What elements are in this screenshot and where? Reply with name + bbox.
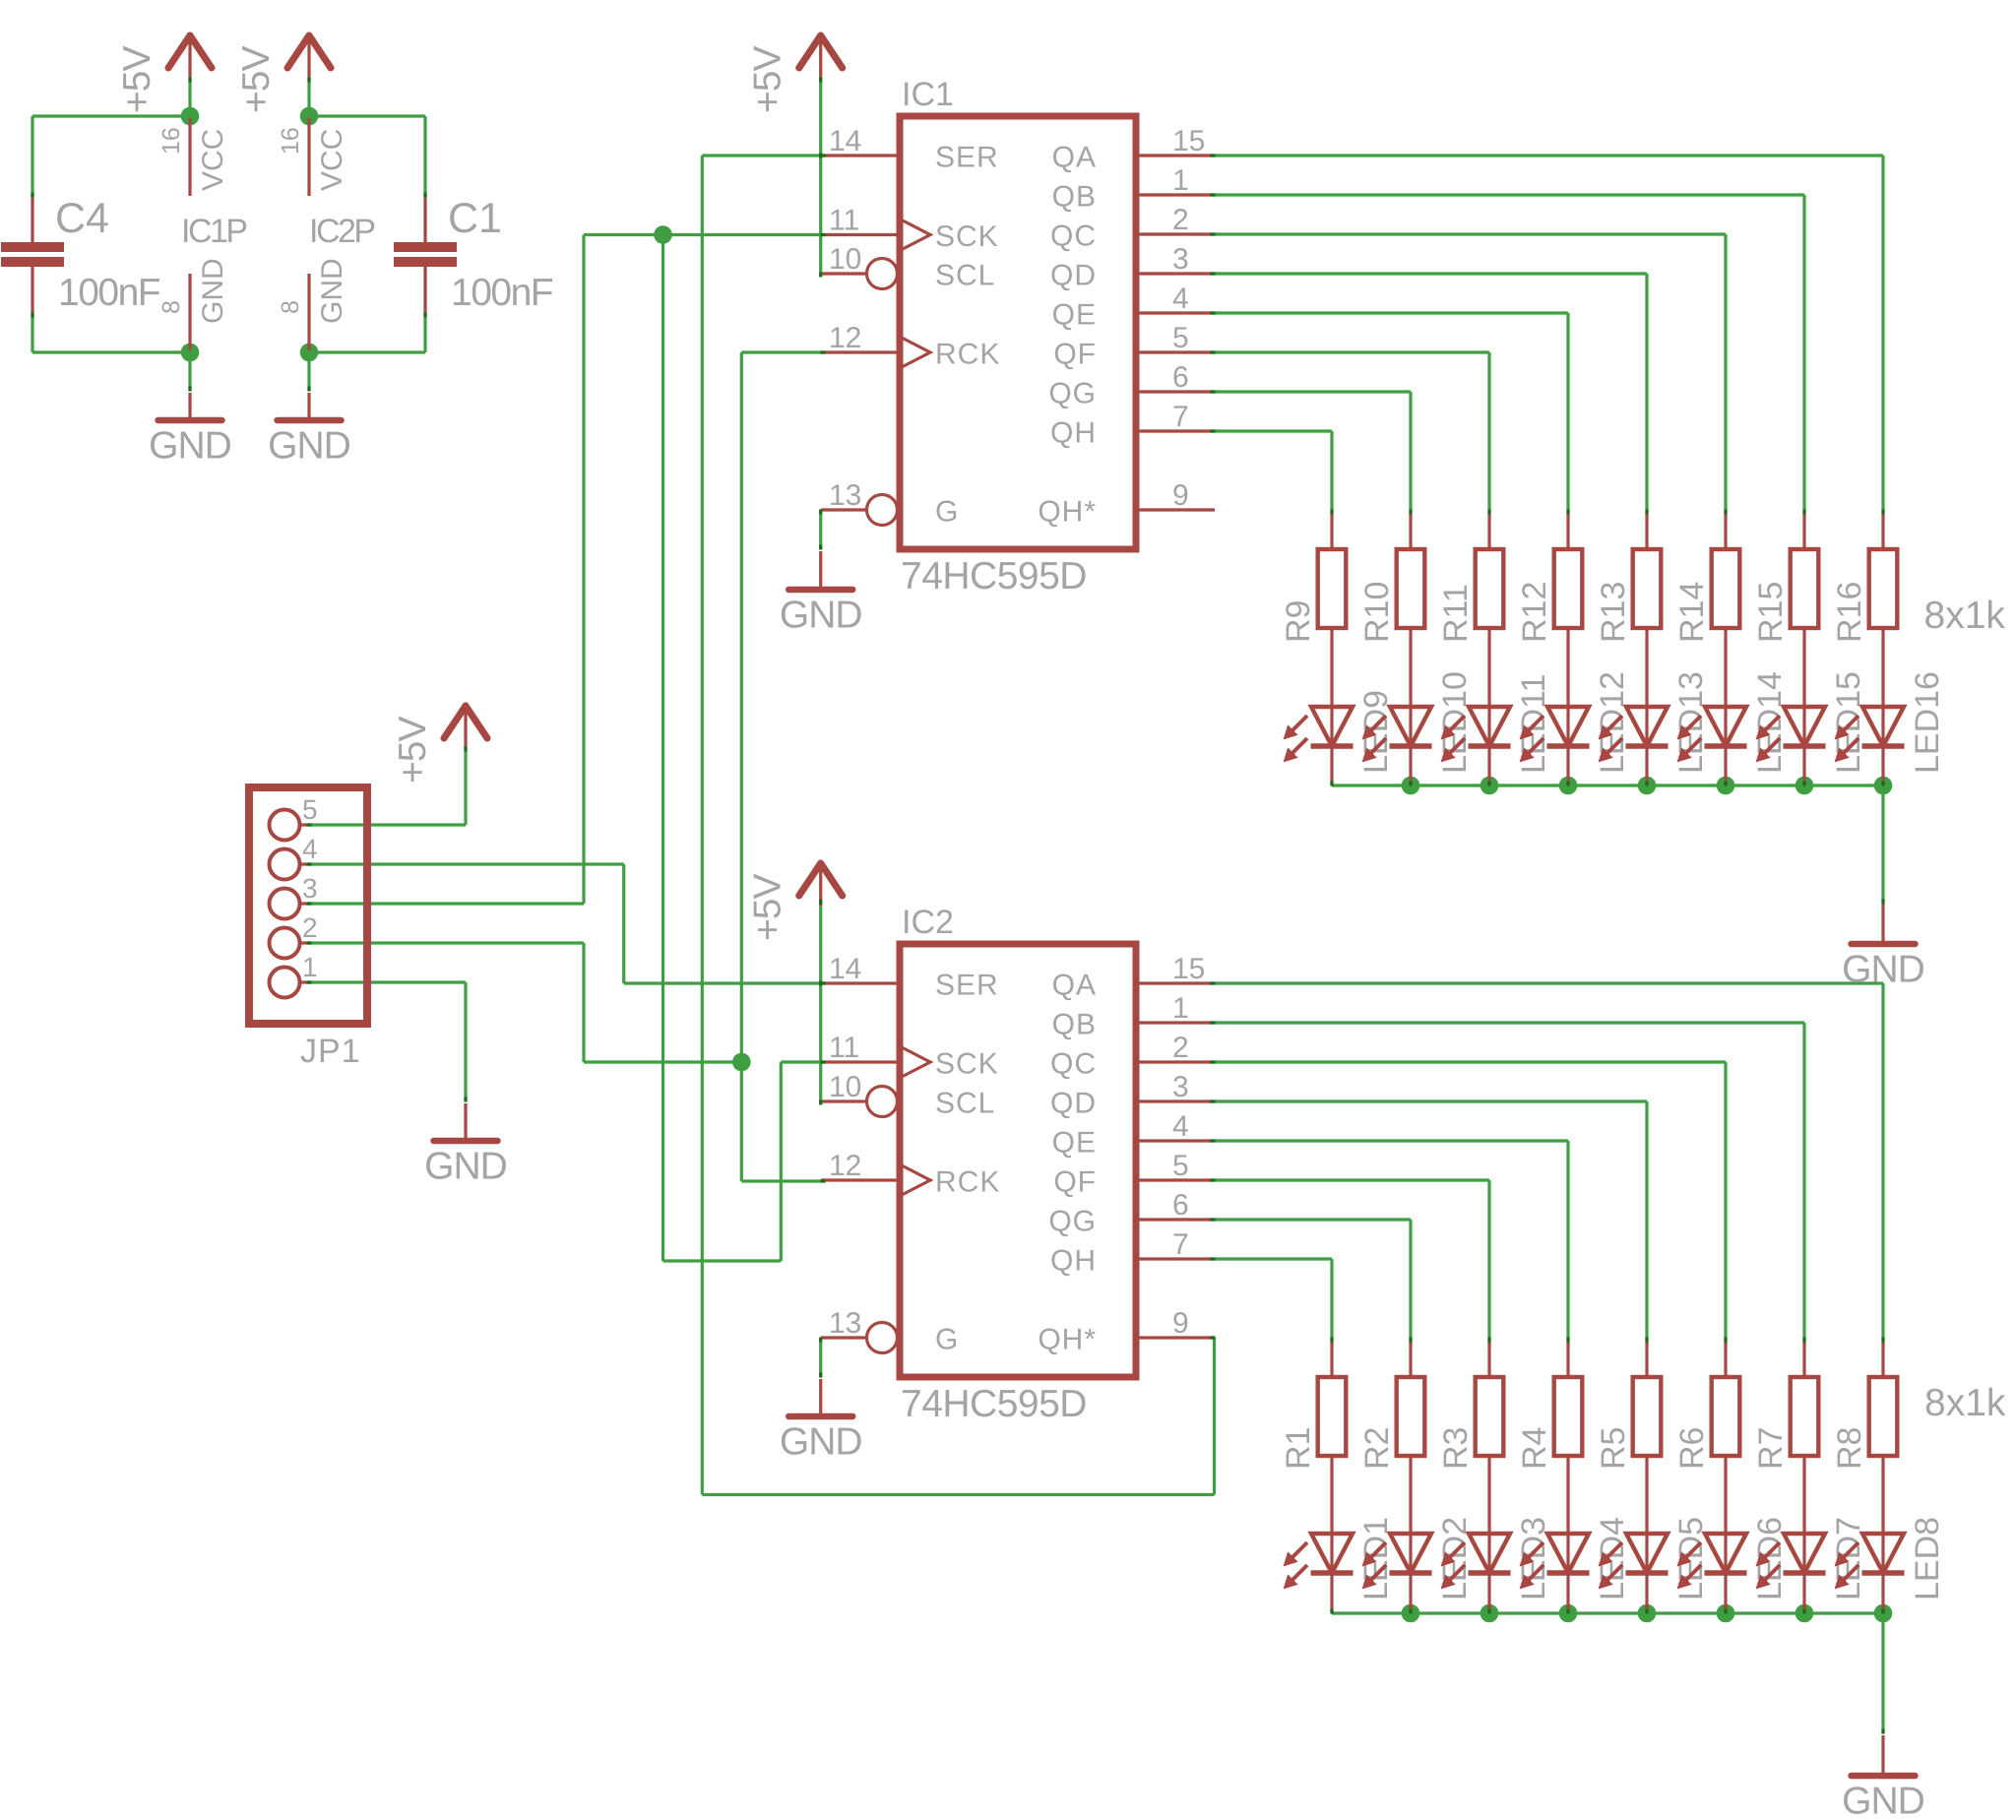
svg-text:QH*: QH*: [1038, 496, 1097, 529]
ground symbol top LED bus: [1881, 904, 1884, 944]
svg-text:5: 5: [1172, 1150, 1189, 1182]
svg-text:LED10: LED10: [1436, 671, 1474, 774]
svg-text:QC: QC: [1050, 220, 1097, 253]
wire net IC2.QD riser to R5: [1645, 1101, 1648, 1338]
svg-text:9: 9: [1172, 479, 1189, 512]
svg-text:+5V: +5V: [747, 46, 789, 113]
svg-text:GND: GND: [1842, 949, 1924, 991]
node GND junction at IC1P pin 8: [181, 344, 200, 362]
svg-text:R3: R3: [1437, 1427, 1475, 1470]
wire net IC1.QC riser to R14: [1724, 234, 1727, 510]
svg-text:QD: QD: [1050, 260, 1097, 292]
svg-text:2: 2: [302, 912, 318, 943]
capacitor C1 100nF: [423, 196, 426, 243]
svg-text:4: 4: [1172, 282, 1189, 315]
svg-text:8x1k: 8x1k: [1924, 595, 2006, 637]
svg-text:14: 14: [829, 125, 861, 157]
wire +5V: IC2P VCC to C1 top: [309, 114, 425, 117]
svg-text:QB: QB: [1052, 1009, 1097, 1041]
IC2 pin 9 QH*: [1136, 1336, 1215, 1339]
wire net IC1.QD to R13 row: [1215, 272, 1647, 275]
wire GND: bottom bus drop to GND: [1881, 1613, 1884, 1733]
svg-text:12: 12: [829, 322, 861, 354]
wire SCK: bottom jog row: [663, 1259, 782, 1262]
svg-text:RCK: RCK: [935, 1166, 1000, 1199]
wire net IC2.QB to R7 row: [1215, 1021, 1804, 1024]
wire SER2: IC2 SER row: [624, 981, 821, 984]
IC2 pin 1 QB: [1136, 1021, 1215, 1024]
wire SCK: IC1 SCK row: [584, 233, 821, 236]
+5V supply symbol above IC2: [799, 863, 821, 896]
svg-text:R6: R6: [1673, 1427, 1711, 1470]
svg-text:SCK: SCK: [935, 1048, 999, 1081]
LED LED3: [1469, 1534, 1510, 1573]
wire GND: IC2P GND pin to C1: [309, 350, 425, 353]
svg-text:VCC: VCC: [316, 129, 348, 191]
wire net IC1.QE riser to R12: [1566, 313, 1569, 510]
resistor R3 1k: [1487, 1338, 1490, 1377]
wire net IC1.QB riser to R15: [1802, 195, 1805, 510]
svg-text:1: 1: [302, 952, 318, 982]
IC2 pin 14 SER: [821, 981, 900, 984]
+5V supply symbol P1: [168, 35, 190, 68]
svg-text:GND: GND: [268, 425, 350, 468]
svg-text:C1: C1: [448, 195, 502, 242]
ground symbol at IC2 G pin: [819, 1379, 822, 1416]
IC1 pin 3 QD: [1136, 272, 1215, 275]
svg-text:GND: GND: [316, 258, 348, 324]
svg-text:R8: R8: [1831, 1427, 1868, 1470]
IC1 pin 5 QF: [1136, 350, 1215, 353]
wire net IC2.QB riser to R7: [1802, 1023, 1805, 1338]
svg-text:12: 12: [829, 1150, 861, 1182]
svg-text:QA: QA: [1052, 142, 1097, 174]
node bottom LED bus junction: [1480, 1604, 1499, 1623]
LED LED9: [1311, 707, 1353, 746]
svg-text:R15: R15: [1752, 582, 1790, 643]
IC2 pin 3 QD: [1136, 1099, 1215, 1102]
JP1 pin 5: [270, 810, 300, 841]
wire RCK: JP1.2 riser: [582, 943, 585, 1062]
wire SCK: trunk x=673 down: [661, 235, 664, 1262]
svg-text:+5V: +5V: [116, 46, 158, 113]
svg-text:10: 10: [829, 1071, 861, 1103]
resistor R10 1k: [1409, 510, 1412, 549]
LED LED13: [1626, 707, 1668, 746]
svg-text:QH: QH: [1050, 1245, 1097, 1278]
svg-text:6: 6: [1172, 361, 1189, 394]
resistor R16 1k: [1881, 510, 1884, 549]
svg-text:QD: QD: [1050, 1088, 1097, 1120]
+5V supply symbol P2: [287, 35, 309, 68]
node bottom LED bus junction: [1874, 1604, 1893, 1623]
wire net IC1.QG to R10 row: [1215, 390, 1411, 393]
svg-text:+5V: +5V: [235, 46, 278, 113]
svg-text:GND: GND: [149, 425, 231, 468]
wire net IC2.QE to R4 row: [1215, 1139, 1568, 1142]
ground symbol at IC1 G pin: [819, 551, 822, 590]
ground symbol below IC1P: [188, 393, 191, 420]
node GND junction at IC2P pin 8: [300, 344, 319, 362]
IC1 pin 13 G: [821, 508, 867, 511]
svg-text:R12: R12: [1516, 582, 1553, 643]
wire net IC2.QC riser to R6: [1724, 1062, 1727, 1338]
wire GND: C4 to IC1P GND pin: [32, 350, 190, 353]
node top LED bus junction: [1638, 777, 1657, 795]
wire GND: IC2P GND node to symbol: [307, 352, 310, 391]
node top LED bus junction: [1874, 777, 1893, 795]
capacitor C4 100nF: [31, 196, 33, 243]
svg-text:8x1k: 8x1k: [1924, 1382, 2006, 1424]
svg-text:IC1P: IC1P: [181, 213, 246, 250]
wire net IC2.QC to R6 row: [1215, 1060, 1726, 1063]
svg-text:R11: R11: [1437, 584, 1475, 643]
IC1 pin 7 QH: [1136, 429, 1215, 432]
node top LED bus junction: [1480, 777, 1499, 795]
resistor R15 1k: [1802, 510, 1805, 549]
svg-text:R9: R9: [1280, 600, 1317, 643]
ground symbol below IC2P: [307, 393, 310, 420]
wire GND: JP1.1 row: [307, 980, 466, 983]
wire net IC1.QF riser to R11: [1487, 352, 1490, 510]
wire +5V: JP1.5 row: [307, 823, 466, 826]
svg-text:4: 4: [302, 834, 318, 864]
svg-text:QG: QG: [1048, 378, 1097, 410]
wire net IC2.QA to R8 row: [1215, 981, 1883, 984]
wire +5V: riser to IC1 SCL pin 10: [819, 78, 822, 274]
svg-text:IC2P: IC2P: [309, 213, 374, 250]
svg-text:13: 13: [829, 479, 861, 512]
wire net IC1.QH to R9 row: [1215, 429, 1332, 432]
wire +5V: riser to IC2 SCL pin 10: [819, 900, 822, 1102]
wire +5V: JP1.5 riser to arrow: [464, 747, 467, 825]
svg-text:R4: R4: [1516, 1427, 1553, 1470]
svg-text:3: 3: [302, 873, 318, 904]
svg-text:GND: GND: [780, 595, 862, 637]
IC2 pin 15 QA: [1136, 981, 1215, 984]
wire RCK: IC2 RCK row: [741, 1179, 821, 1182]
IC1 pin 9 QH*: [1136, 508, 1215, 511]
svg-text:R10: R10: [1358, 582, 1396, 643]
svg-text:R7: R7: [1752, 1427, 1790, 1470]
svg-text:GND: GND: [424, 1146, 507, 1188]
svg-text:11: 11: [829, 1032, 859, 1064]
resistor R2 1k: [1409, 1338, 1412, 1377]
wire net IC2.QA riser to R8: [1881, 983, 1884, 1338]
wire +5V: arrow P2 drop: [307, 78, 310, 116]
wire SER1: daisy-chain bottom row: [702, 1493, 1214, 1496]
svg-text:QF: QF: [1053, 339, 1097, 371]
IC2 pin 5 QF: [1136, 1178, 1215, 1181]
wire GND: JP1.1 drop: [464, 982, 467, 1101]
LED LED16: [1862, 707, 1904, 746]
power pins IC1P: [188, 118, 191, 196]
wire +5V: C1 right riser: [423, 116, 426, 197]
wire net IC1.QH riser to R9: [1330, 431, 1333, 510]
svg-text:C4: C4: [55, 195, 109, 242]
node bottom LED bus junction: [1795, 1604, 1814, 1623]
IC1 pin 4 QE: [1136, 311, 1215, 314]
IC1 pin 6 QG: [1136, 390, 1215, 393]
resistor R14 1k: [1724, 510, 1727, 549]
svg-text:15: 15: [1172, 953, 1205, 985]
svg-text:3: 3: [1172, 243, 1189, 276]
resistor R6 1k: [1724, 1338, 1727, 1377]
resistor R12 1k: [1566, 510, 1569, 549]
IC2 pin 2 QC: [1136, 1060, 1215, 1063]
svg-text:LED13: LED13: [1672, 671, 1710, 774]
svg-text:IC2: IC2: [902, 904, 954, 941]
svg-text:4: 4: [1172, 1110, 1189, 1143]
svg-text:74HC595D: 74HC595D: [901, 1383, 1087, 1425]
svg-text:QH*: QH*: [1038, 1324, 1097, 1356]
wire GND: top bus drop to GND: [1881, 785, 1884, 902]
wire SER2: JP1.4 row: [307, 862, 624, 865]
IC2 pin 6 QG: [1136, 1218, 1215, 1221]
wire net IC1.QE to R12 row: [1215, 311, 1568, 314]
wire net IC1.QF to R11 row: [1215, 350, 1489, 353]
svg-text:QB: QB: [1052, 181, 1097, 214]
svg-text:GND: GND: [780, 1421, 862, 1464]
svg-text:JP1: JP1: [300, 1033, 361, 1070]
wire SER1: riser to IC2 QH* pin 9: [1213, 1338, 1216, 1495]
JP1 pin 1: [270, 968, 300, 998]
IC1 pin 2 QC: [1136, 232, 1215, 235]
wire net IC2.QE riser to R4: [1566, 1141, 1569, 1338]
svg-text:GND: GND: [1842, 1781, 1924, 1820]
wire net IC2.QF riser to R3: [1487, 1180, 1490, 1338]
svg-text:2: 2: [1172, 1032, 1189, 1064]
svg-text:R5: R5: [1595, 1427, 1632, 1470]
wire GND: C4 bottom riser: [31, 313, 33, 352]
wire GND: bottom LED bus: [1332, 1611, 1883, 1614]
svg-text:14: 14: [829, 953, 861, 985]
svg-text:8: 8: [277, 300, 304, 314]
LED LED8: [1862, 1534, 1904, 1573]
svg-text:1: 1: [1172, 164, 1189, 197]
svg-text:+5V: +5V: [747, 874, 789, 941]
svg-text:LED16: LED16: [1909, 671, 1946, 774]
wire GND: IC1P GND node to symbol: [188, 352, 191, 391]
node top LED bus junction: [1559, 777, 1578, 795]
svg-text:5: 5: [302, 794, 318, 825]
wire GND: IC1 G pin drop: [819, 510, 822, 549]
IC2 pin 7 QH: [1136, 1257, 1215, 1260]
connector JP1 box: [249, 787, 367, 1024]
svg-text:LED15: LED15: [1830, 671, 1867, 774]
svg-text:SER: SER: [935, 142, 999, 174]
LED LED6: [1705, 1534, 1746, 1573]
LED LED15: [1784, 707, 1825, 746]
LED LED10: [1390, 707, 1431, 746]
node bottom LED bus junction: [1638, 1604, 1657, 1623]
IC2 pin 12 RCK: [821, 1178, 900, 1181]
wire net IC1.QG riser to R10: [1409, 392, 1412, 510]
svg-text:LED14: LED14: [1751, 671, 1789, 774]
wire RCK: trunk x=753: [740, 352, 743, 1181]
node top LED bus junction: [1402, 777, 1420, 795]
svg-text:100nF: 100nF: [451, 272, 553, 314]
wire GND: top LED bus: [1332, 784, 1883, 786]
wire RCK: jog row to trunk: [584, 1060, 741, 1063]
LED LED4: [1547, 1534, 1589, 1573]
wire net IC1.QC to R14 row: [1215, 232, 1726, 235]
wire SER1: IC1 SER row: [702, 154, 821, 157]
IC2 pin 4 QE: [1136, 1139, 1215, 1142]
wire SER2: riser x=633: [622, 864, 625, 983]
svg-text:11: 11: [829, 205, 859, 237]
IC1 pin 14 SER: [821, 154, 900, 157]
LED LED12: [1547, 707, 1589, 746]
svg-text:SCL: SCL: [935, 260, 995, 292]
LED LED14: [1705, 707, 1746, 746]
svg-text:6: 6: [1172, 1189, 1189, 1222]
wire +5V: C4 top to IC1P VCC: [32, 114, 190, 117]
+5V supply symbol at JP1: [444, 706, 466, 738]
node bottom LED bus junction: [1717, 1604, 1735, 1623]
power pins IC2P: [307, 118, 310, 196]
+5V supply symbol above IC1: [799, 35, 821, 68]
resistor R7 1k: [1802, 1338, 1805, 1377]
wire RCK: JP1.2 row: [307, 941, 584, 944]
wire +5V: arrow P1 drop to VCC node: [188, 78, 191, 116]
svg-text:15: 15: [1172, 125, 1205, 157]
svg-text:QH: QH: [1050, 417, 1097, 450]
svg-text:2: 2: [1172, 204, 1189, 236]
svg-text:SER: SER: [935, 970, 999, 1002]
svg-text:R1: R1: [1280, 1427, 1317, 1470]
svg-text:RCK: RCK: [935, 339, 1000, 371]
wire net IC1.QB to R15 row: [1215, 193, 1804, 196]
wire net IC2.QH to R1 row: [1215, 1257, 1332, 1260]
svg-text:G: G: [935, 1324, 959, 1356]
wire net IC1.QA riser to R16: [1881, 156, 1884, 510]
svg-text:VCC: VCC: [197, 129, 229, 191]
wire SCK: JP1.3 riser: [582, 235, 585, 905]
LED LED1: [1311, 1534, 1353, 1573]
wire +5V: C4 left riser: [31, 116, 33, 197]
resistor R11 1k: [1487, 510, 1490, 549]
wire RCK: IC1 RCK row: [741, 350, 821, 353]
ground symbol bottom LED bus: [1881, 1735, 1884, 1776]
svg-text:8: 8: [157, 300, 185, 314]
resistor R5 1k: [1645, 1338, 1648, 1377]
node bottom LED bus junction: [1559, 1604, 1578, 1623]
svg-text:13: 13: [829, 1307, 861, 1340]
svg-text:1: 1: [1172, 992, 1189, 1025]
node top LED bus junction: [1795, 777, 1814, 795]
svg-text:SCK: SCK: [935, 220, 999, 253]
resistor R4 1k: [1566, 1338, 1569, 1377]
IC U2: 74HC595D shift register IC2 box: [900, 944, 1136, 1377]
svg-text:5: 5: [1172, 322, 1189, 354]
node +5V junction at IC2P VCC: [300, 107, 319, 126]
svg-text:SCL: SCL: [935, 1088, 995, 1120]
svg-text:QE: QE: [1052, 299, 1097, 332]
IC1 pin 11 SCK: [821, 233, 900, 236]
wire net IC2.QD to R5 row: [1215, 1099, 1647, 1102]
node RCK junction on trunk: [732, 1053, 751, 1072]
svg-text:IC1: IC1: [902, 76, 954, 113]
JP1 pin 4: [270, 849, 300, 880]
svg-text:74HC595D: 74HC595D: [901, 555, 1087, 597]
JP1 pin 3: [270, 889, 300, 919]
svg-text:16: 16: [277, 127, 304, 155]
wire SCK: JP1.3 row: [307, 902, 584, 905]
resistor R13 1k: [1645, 510, 1648, 549]
svg-text:R16: R16: [1831, 582, 1868, 643]
wire net IC2.QG riser to R2: [1409, 1220, 1412, 1338]
wire net IC1.QD riser to R13: [1645, 274, 1648, 510]
IC1 pin 10 SCL: [821, 272, 867, 275]
svg-text:R13: R13: [1595, 582, 1632, 643]
svg-text:R2: R2: [1358, 1427, 1396, 1470]
LED LED5: [1626, 1534, 1668, 1573]
node top LED bus junction: [1717, 777, 1735, 795]
ground symbol at JP1 pin 1: [464, 1103, 467, 1141]
wire SER1: vertical trunk x=713: [701, 156, 704, 1495]
svg-text:QG: QG: [1048, 1206, 1097, 1238]
svg-text:7: 7: [1172, 401, 1189, 433]
node bottom LED bus junction: [1402, 1604, 1420, 1623]
svg-text:100nF: 100nF: [58, 272, 160, 314]
IC U1: 74HC595D shift register IC1 box: [900, 116, 1136, 549]
svg-text:QE: QE: [1052, 1127, 1097, 1160]
svg-text:10: 10: [829, 243, 861, 276]
IC1 pin 1 QB: [1136, 193, 1215, 196]
wire GND: C1 bottom riser: [423, 313, 426, 352]
LED LED11: [1469, 707, 1510, 746]
LED LED2: [1390, 1534, 1431, 1573]
svg-text:LED12: LED12: [1594, 671, 1631, 774]
wire net IC1.QA to R16 row: [1215, 154, 1883, 157]
IC2 pin 13 G: [821, 1336, 867, 1339]
resistor R8 1k: [1881, 1338, 1884, 1377]
svg-text:7: 7: [1172, 1228, 1189, 1261]
wire net IC2.QF to R3 row: [1215, 1178, 1489, 1181]
wire net IC2.QH riser to R1: [1330, 1259, 1333, 1338]
svg-text:R14: R14: [1673, 582, 1711, 643]
LED LED7: [1784, 1534, 1825, 1573]
svg-text:QC: QC: [1050, 1048, 1097, 1081]
node SCK junction at IC1 pin 11 row: [654, 225, 672, 244]
svg-text:QA: QA: [1052, 970, 1097, 1002]
wire SCK: IC2 SCK row: [781, 1060, 821, 1063]
svg-text:9: 9: [1172, 1307, 1189, 1340]
svg-text:QF: QF: [1053, 1166, 1097, 1199]
svg-text:GND: GND: [197, 258, 229, 324]
IC2 pin 10 SCL: [821, 1099, 867, 1102]
IC1 pin 15 QA: [1136, 154, 1215, 157]
wire net IC2.QG to R2 row: [1215, 1218, 1411, 1221]
resistor R1 1k: [1330, 1338, 1333, 1377]
svg-text:16: 16: [157, 127, 185, 155]
svg-text:LED8: LED8: [1909, 1517, 1946, 1600]
resistor R9 1k: [1330, 510, 1333, 549]
node +5V junction at IC1P VCC: [181, 107, 200, 126]
JP1 pin 2: [270, 928, 300, 959]
wire GND: IC2 G pin drop: [819, 1338, 822, 1377]
IC2 pin 11 SCK: [821, 1060, 900, 1063]
wire SCK: jog riser x=793: [780, 1062, 783, 1261]
svg-text:G: G: [935, 496, 959, 529]
svg-text:+5V: +5V: [392, 717, 434, 784]
IC1 pin 12 RCK: [821, 350, 900, 353]
svg-text:3: 3: [1172, 1071, 1189, 1103]
